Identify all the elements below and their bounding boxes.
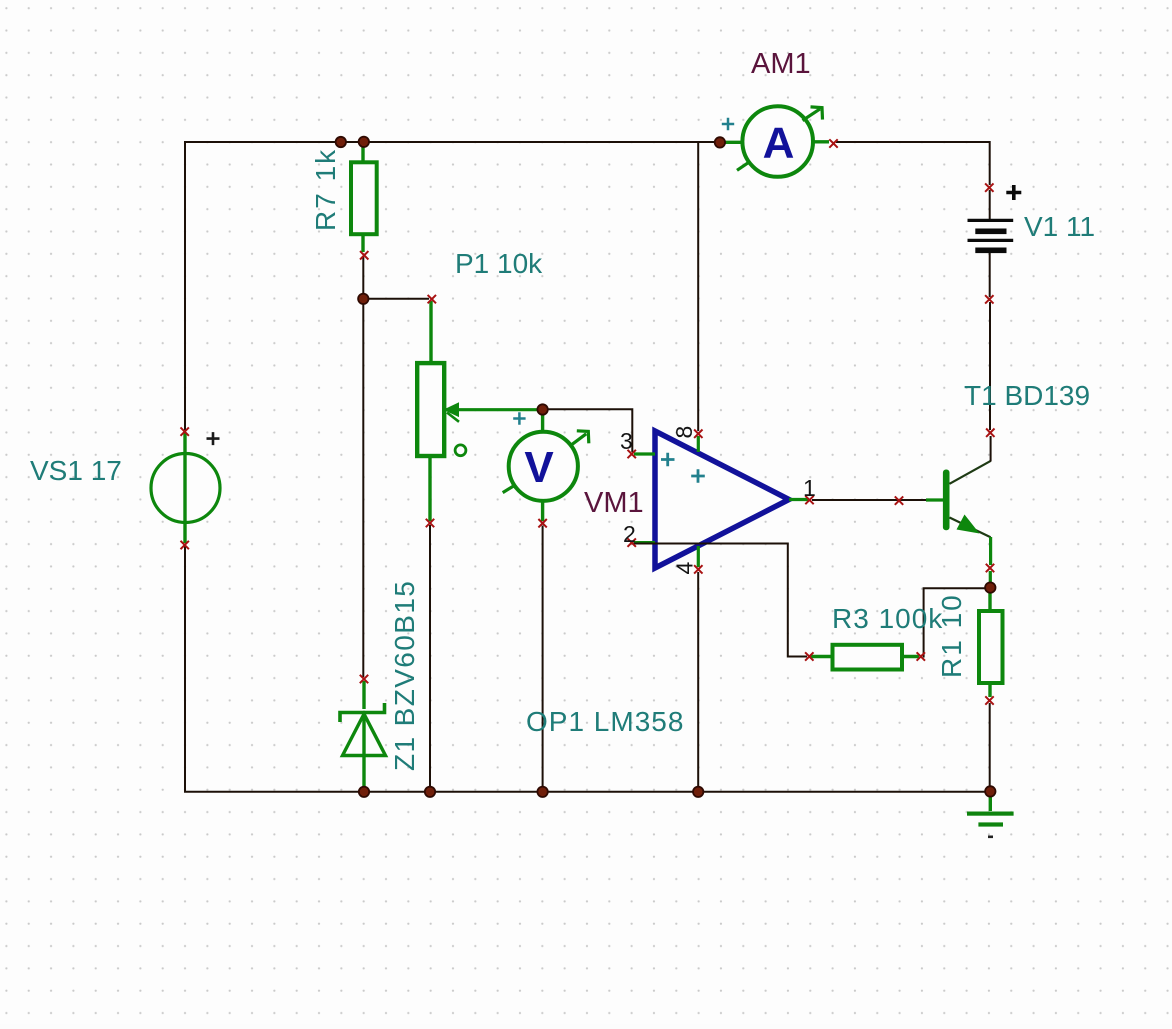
svg-text:VM1: VM1 — [584, 487, 644, 519]
node wiper voltmeter — [537, 404, 547, 414]
svg-text:T1 BD139: T1 BD139 — [964, 380, 1090, 411]
pin mark Z1 top — [360, 675, 368, 683]
svg-text:3: 3 — [620, 428, 633, 454]
pin mark R3 left — [805, 652, 813, 660]
node bottom rail zener — [359, 787, 369, 797]
resistor R7 — [351, 143, 377, 252]
wire from op-amp pin 4 down to bottom rail — [697, 572, 699, 791]
ammeter AM1 — [722, 106, 829, 177]
wire from battery top x-mark to top plate — [989, 190, 991, 220]
wire from ammeter node down to op-amp pin 8 — [697, 143, 699, 431]
node top rail left — [336, 137, 346, 147]
op-amp OP1 — [634, 431, 809, 568]
svg-text:OP1 LM358: OP1 LM358 — [526, 706, 684, 737]
pin mark VS1 plus — [181, 427, 189, 435]
pin mark op-amp pin 3 — [628, 450, 636, 458]
pin mark P1 bottom — [426, 519, 434, 527]
wire from voltmeter bottom pin down to bottom rail — [542, 526, 544, 792]
potentiometer P1 — [417, 301, 540, 521]
ground — [967, 795, 1014, 838]
node ammeter left — [715, 137, 725, 147]
wire from R7 bottom pin to node below — [362, 257, 364, 299]
svg-text:R3 100k: R3 100k — [832, 603, 943, 634]
wire from potentiometer bottom pin down to bottom rail — [429, 525, 431, 791]
pin mark transistor collector — [986, 429, 994, 437]
voltmeter VM1 — [503, 411, 589, 521]
node bottom rail op-amp pin 4 — [693, 787, 703, 797]
transistor T1 — [926, 436, 991, 585]
pin mark ammeter right — [829, 139, 837, 147]
battery V1 — [968, 185, 1022, 253]
wire from wiper node to op-amp pin 3 — [544, 409, 632, 452]
wire feedback from op-amp pin 2 to R3 left pin — [632, 544, 807, 657]
svg-text:8: 8 — [671, 426, 697, 439]
pin mark VS1 minus — [181, 541, 189, 549]
wire left rail vertical from top corner down to VS1 plus pin — [184, 141, 186, 430]
wire bottom rail — [184, 791, 990, 793]
svg-text:2: 2 — [623, 521, 636, 547]
wire from battery x-mark down to transistor collector — [989, 302, 991, 430]
node ground corner — [985, 786, 995, 796]
pin mark VM1 bottom — [538, 519, 546, 527]
svg-text:R7 1k: R7 1k — [310, 148, 341, 231]
svg-text:P1 10k: P1 10k — [455, 248, 543, 279]
pin mark battery minus — [985, 295, 993, 303]
wire feedback overlay from pin 2 across triangle — [632, 543, 730, 545]
svg-text:Z1 BZV60B15: Z1 BZV60B15 — [389, 580, 420, 771]
wire from op-amp output to transistor base — [812, 499, 926, 501]
pin mark op-amp pin 1 — [805, 496, 813, 504]
svg-text:V1 11: V1 11 — [1024, 211, 1095, 242]
pin mark R3 right — [917, 652, 925, 660]
node bottom rail voltmeter — [537, 787, 547, 797]
wire from node down to zener top pin — [362, 299, 364, 677]
node bottom rail potentiometer — [425, 787, 435, 797]
pin mark R1 bottom — [985, 696, 993, 704]
wire from battery bottom plate to x-mark — [989, 253, 991, 297]
wire top rail from VS1 top corner to ammeter node — [184, 141, 719, 143]
voltage source VS1 — [151, 432, 220, 543]
node emitter R1 R3 — [985, 582, 995, 592]
wire from node to potentiometer top pin — [363, 298, 429, 300]
svg-text:A: A — [763, 118, 795, 167]
pin mark battery plus — [985, 183, 993, 191]
wire from VS1 minus pin down to bottom rail — [184, 546, 186, 792]
wire from R3 right pin up to emitter node — [923, 588, 985, 656]
pin mark op-amp pin 4 — [694, 565, 702, 573]
svg-text:V: V — [524, 443, 554, 492]
resistor R1 — [979, 590, 1003, 697]
pin mark op-amp pin 2 — [628, 538, 636, 546]
node R7 to P1 — [358, 294, 368, 304]
svg-text:AM1: AM1 — [751, 48, 811, 80]
pin mark transistor base wire — [895, 496, 903, 504]
svg-text:R1 10: R1 10 — [936, 593, 967, 678]
svg-text:1: 1 — [803, 475, 816, 501]
node top rail R7 — [359, 137, 369, 147]
svg-text:VS1 17: VS1 17 — [30, 455, 122, 486]
pin mark P1 top — [428, 295, 436, 303]
zener diode Z1 — [340, 681, 386, 791]
pin mark op-amp pin 8 — [694, 430, 702, 438]
resistor R3 — [810, 645, 919, 670]
wire from ammeter right pin to top-right corner and down to battery plus — [836, 142, 990, 185]
wire from R1 bottom pin down to ground corner — [989, 703, 991, 790]
pin mark R7 bottom — [360, 251, 368, 259]
pin mark transistor emitter — [986, 564, 994, 572]
svg-text:4: 4 — [672, 562, 698, 575]
